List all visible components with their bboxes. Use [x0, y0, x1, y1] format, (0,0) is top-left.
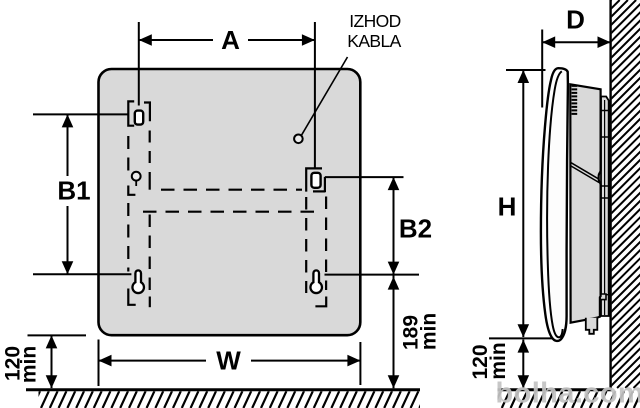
bottom-right bracket: [315, 297, 326, 307]
dim B2 line: [393, 177, 395, 274]
dim D extension line: [541, 30, 543, 108]
svg-text:min: min: [487, 342, 510, 379]
svg-text:IZHOD: IZHOD: [349, 11, 400, 31]
side-view floor hatch: [484, 391, 640, 408]
svg-text:KABLA: KABLA: [347, 31, 401, 51]
dim B1 extension lines: [33, 113, 128, 115]
wall face line: [609, 0, 611, 389]
svg-text:B2: B2: [399, 214, 432, 244]
horizontal rail bottom dashed: [143, 211, 317, 213]
dim 189min line: [393, 275, 395, 389]
svg-text:B1: B1: [57, 176, 90, 206]
svg-text:A: A: [221, 25, 240, 55]
heater front panel: [99, 69, 361, 335]
dim A extension lines: [138, 22, 140, 106]
wall bracket strip: [601, 97, 609, 317]
heater body (side): [570, 84, 600, 322]
right rail top bracket: [306, 168, 322, 191]
right rail inner dashed: [305, 197, 307, 293]
bottom-left bracket: [128, 289, 135, 305]
side-view floor line: [498, 388, 612, 391]
wall hatch: [224, 0, 640, 388]
svg-text:min: min: [18, 346, 41, 383]
mounting slot top-left: [135, 111, 143, 125]
heater front panel (side profile): [541, 68, 568, 341]
left rail outer dashed: [127, 136, 129, 178]
keyhole bottom-right: [310, 270, 322, 293]
dim B2 extension lines: [325, 176, 404, 178]
leader line IZHOD KABLA: [302, 57, 348, 135]
body seam: [570, 162, 599, 182]
dim H line: [522, 70, 524, 337]
cable outlet circle: [294, 135, 303, 144]
left rail top bracket: [128, 101, 134, 125]
dim D line: [542, 41, 610, 43]
dim H extension lines: [506, 69, 546, 71]
dim B1 line: [67, 115, 69, 274]
svg-text:bolha.com: bolha.com: [496, 378, 640, 408]
keyhole bottom-left: [132, 270, 144, 293]
left rail inner dashed: [149, 131, 151, 169]
grille teeth: [572, 86, 578, 114]
dim W line: [99, 360, 361, 362]
dim W extension lines: [98, 340, 100, 387]
mounting foot: [586, 318, 598, 334]
adjuster circle: [132, 172, 141, 181]
svg-text:H: H: [498, 192, 517, 222]
dim 120min-left extension line: [28, 334, 87, 336]
left rail inner solid by circle: [149, 172, 151, 190]
svg-text:min: min: [418, 313, 441, 350]
right rail outer dashed: [325, 197, 327, 291]
front-view floor line: [26, 388, 420, 391]
dim 120min-side line: [522, 340, 524, 389]
left rail inner dashed lower: [149, 215, 151, 294]
mounting slot right: [311, 173, 320, 188]
left bracket under circle: [128, 186, 135, 195]
horizontal rail top dashed: [161, 189, 302, 191]
svg-text:W: W: [216, 346, 241, 376]
front-view floor hatch: [32, 391, 436, 408]
wall hook: [599, 294, 606, 300]
front panel inner line: [547, 71, 562, 337]
dim 120min-left line: [51, 336, 53, 389]
dim A line: [139, 39, 315, 41]
svg-text:D: D: [566, 5, 585, 35]
